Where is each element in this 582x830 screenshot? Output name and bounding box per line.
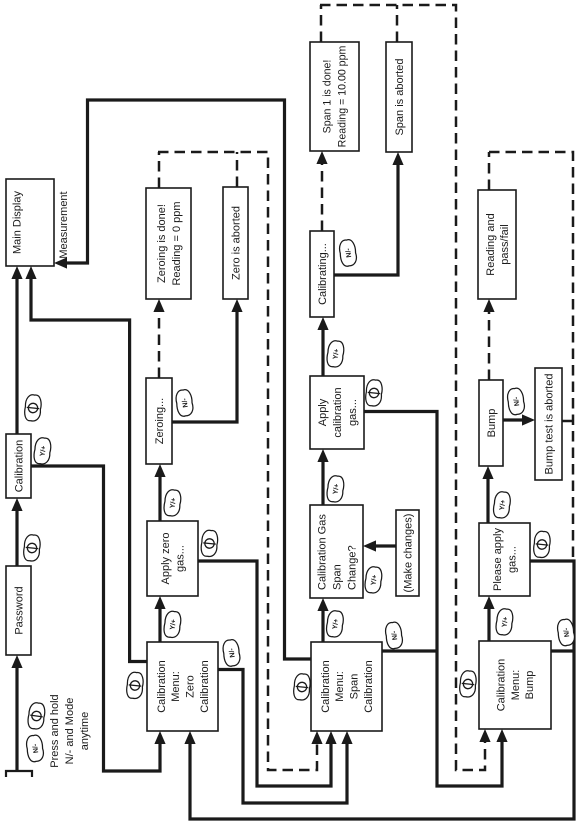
svg-text:Bump test is aborted: Bump test is aborted (543, 374, 555, 475)
wire: bump aborted stub dashed (562, 420, 573, 423)
wire: Span menu to Change (321, 609, 324, 642)
svg-text:Menu:: Menu: (510, 670, 522, 701)
svg-text:Zero is aborted: Zero is aborted (230, 206, 242, 280)
svg-text:Y/+: Y/+ (39, 445, 47, 457)
svg-text:(Make changes): (Make changes) (402, 514, 414, 593)
svg-text:Y/+: Y/+ (332, 483, 340, 495)
svg-text:Reading = 0 ppm: Reading = 0 ppm (171, 201, 183, 285)
svg-text:Calibration: Calibration (363, 660, 375, 713)
svg-text:Calibration Gas: Calibration Gas (316, 514, 328, 590)
node: Bump box (479, 380, 503, 466)
svg-text:Change?: Change? (346, 545, 358, 590)
icon: power left of Bump menu (459, 670, 477, 698)
wire: reading return dashed (488, 152, 491, 190)
svg-text:Zero: Zero (185, 675, 197, 698)
wire: Password to Calibration (15, 509, 18, 566)
icon: Y/+ Span menu to Change (325, 610, 344, 638)
svg-text:Password: Password (13, 586, 25, 634)
svg-text:pass/fail: pass/fail (499, 224, 511, 264)
wire: Zero menu N/- exit to Span menu (218, 670, 347, 804)
node: Span is aborted box (386, 42, 412, 152)
wire: zero aborted return dashed (236, 152, 239, 187)
node: Span 1 is done box (310, 42, 359, 151)
icon: N/- right of Bump (506, 387, 525, 415)
icon: N/- start (25, 734, 44, 762)
wire: Please apply to Bump (486, 477, 489, 523)
wire: zero return vertical dashed (158, 152, 317, 770)
svg-text:N/-: N/- (563, 627, 571, 638)
svg-text:Measurement: Measurement (58, 191, 70, 258)
wire: span return vertical dashed (320, 5, 485, 770)
node: Calibration Menu Span Calibration box (311, 642, 382, 731)
wire: span done return dashed (320, 5, 323, 42)
svg-text:N/-: N/- (345, 247, 353, 258)
icon: power after Calibration (24, 394, 42, 422)
icon: N/- right of Zeroing (175, 389, 194, 417)
svg-text:Y/+: Y/+ (332, 348, 340, 360)
wire: Apply cal gas to Calibrating (321, 328, 324, 376)
svg-text:Calibration: Calibration (156, 660, 168, 713)
node: Reading and pass fail box (478, 190, 516, 299)
wire: Zero menu to Apply zero gas (158, 607, 161, 642)
svg-text:N/- and Mode: N/- and Mode (64, 698, 76, 765)
icon: Y/+ Bump menu to Please (495, 608, 514, 636)
node: Zeroing box (146, 378, 172, 464)
wire: Bump menu to Please apply (487, 607, 490, 641)
icon: power left of Span menu (293, 673, 311, 701)
icon: N/- below Bump menu (556, 618, 575, 646)
start bracket (6, 771, 32, 777)
node: Apply zero gas box (147, 521, 198, 596)
node: Calibration Menu Bump box (479, 641, 551, 729)
svg-text:Y/+: Y/+ (169, 497, 177, 509)
svg-text:Reading = 10.00 ppm: Reading = 10.00 ppm (337, 46, 349, 148)
node: Calibrating box (310, 231, 334, 317)
node: Calibration Menu Zero Calibration box (147, 642, 218, 731)
wire: Change to Apply calibration gas (321, 460, 324, 505)
svg-text:Y/+: Y/+ (499, 499, 507, 511)
icon: N/- right of Calibrating (338, 239, 357, 267)
svg-text:gas...: gas... (347, 399, 359, 426)
wire: span aborted return dashed (396, 5, 399, 42)
wire: Span menu N/- exit join (382, 649, 437, 652)
icon: power right of Apply zero gas (200, 530, 218, 558)
svg-text:Y/+: Y/+ (169, 619, 177, 631)
svg-text:N/-: N/- (391, 630, 399, 641)
wire: Calibration to Main Display (15, 277, 18, 434)
node: Zero is aborted box (223, 187, 248, 299)
wire: Make changes to Change (374, 544, 396, 547)
svg-text:Calibrating...: Calibrating... (317, 243, 329, 305)
icon: N/- right of Zero menu (222, 639, 241, 667)
svg-text:Main Display: Main Display (12, 191, 24, 254)
wire: Bump N/- to Bump test aborted (503, 418, 524, 421)
icon: N/- right of Span menu (384, 621, 403, 649)
wire: Bump menu N/- exit join (551, 649, 574, 652)
icon: Y/+ Zero menu to Apply (163, 610, 182, 638)
svg-text:Please apply: Please apply (492, 528, 504, 591)
wire: Calibrating N/- to Span aborted (334, 163, 398, 275)
wire: Apply cal power exit to Bump menu (364, 412, 502, 787)
svg-text:Reading and: Reading and (485, 213, 497, 275)
wire: Apply zero power exit to Span menu (198, 561, 331, 786)
node: Calibration box (6, 434, 31, 498)
wire: Zeroing N/- to Zero is aborted (172, 310, 237, 422)
svg-text:Calibration: Calibration (199, 660, 211, 713)
node: Zeroing is done box (146, 188, 191, 299)
svg-text:Apply: Apply (317, 398, 329, 426)
svg-text:Press and hold: Press and hold (49, 694, 61, 767)
svg-text:Span: Span (331, 564, 343, 590)
icon: power start (27, 702, 46, 730)
wire: Bump to Reading dashed (488, 308, 491, 380)
icon: power right of Please apply gas (533, 531, 551, 559)
wire: Zeroing to Zeroing is done dashed (158, 308, 161, 378)
node: Make changes box (396, 510, 419, 596)
wire: Span menu power return to Main Display (65, 100, 311, 659)
svg-text:Bump: Bump (486, 409, 498, 438)
wire: start to Password (15, 666, 18, 771)
wire: bottom loop into Zero menu (190, 561, 574, 819)
icon: Y/+ Apply cal to Calibrating (326, 340, 345, 368)
wire: zero done return dashed (158, 152, 161, 188)
svg-text:N/-: N/- (513, 396, 521, 407)
icon: power right of Apply cal gas (365, 379, 383, 407)
svg-text:Apply zero: Apply zero (160, 533, 172, 585)
wire: Calibration Y/+ down to Zero menu (31, 466, 160, 771)
wire: Apply zero gas to Zeroing (158, 475, 161, 521)
svg-text:Y/+: Y/+ (332, 618, 340, 630)
icon: Y/+ below Calibration (33, 437, 52, 465)
svg-text:Calibration: Calibration (13, 440, 25, 493)
node: Calibration Gas Span Change box (310, 505, 363, 598)
svg-text:Menu:: Menu: (170, 671, 182, 702)
svg-text:Zeroing is done!: Zeroing is done! (156, 204, 168, 283)
svg-text:Span: Span (349, 674, 361, 700)
svg-text:Calibration: Calibration (496, 659, 508, 712)
svg-text:Calibration: Calibration (320, 660, 332, 713)
icon: Y/+ Apply to Zeroing (163, 489, 182, 517)
svg-text:N/-: N/- (32, 743, 40, 754)
icon: Y/+ Change to Apply cal (326, 475, 345, 503)
svg-text:Zeroing...: Zeroing... (154, 398, 166, 444)
svg-text:calibration: calibration (332, 387, 344, 437)
node: Please apply gas box (479, 523, 530, 596)
node: Password box (6, 566, 31, 655)
svg-text:N/-: N/- (228, 647, 236, 658)
svg-text:Y/+: Y/+ (501, 616, 509, 628)
svg-text:gas...: gas... (507, 546, 519, 573)
node: Apply calibration gas box (310, 376, 364, 449)
node: Main Display box (6, 179, 54, 266)
svg-text:gas...: gas... (175, 545, 187, 572)
svg-text:Bump: Bump (524, 671, 536, 700)
node: Bump test is aborted box (535, 368, 562, 480)
icon: Y/+ Please to Bump (492, 491, 511, 519)
icon: Y/+ near Make changes (364, 566, 383, 594)
svg-text:Span 1 is done!: Span 1 is done! (322, 60, 334, 134)
icon: power after Password (23, 534, 41, 562)
svg-text:Menu:: Menu: (334, 671, 346, 702)
wire: Calibrating to Span done dashed (321, 160, 324, 231)
svg-text:Y/+: Y/+ (370, 574, 378, 586)
svg-text:N/-: N/- (181, 397, 189, 408)
svg-text:Span is aborted: Span is aborted (394, 58, 406, 135)
svg-text:anytime: anytime (79, 712, 91, 751)
wire: bump return dashed (489, 152, 573, 561)
wire: Zero menu power return to Main Display (31, 277, 147, 662)
icon: power left of Zero menu (126, 672, 144, 700)
